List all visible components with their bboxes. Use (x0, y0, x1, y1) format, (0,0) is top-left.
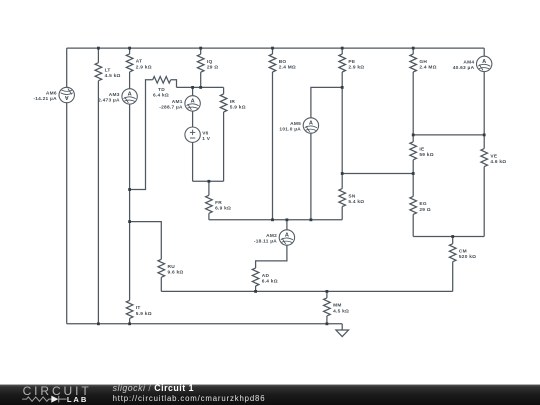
svg-text:59 kΩ: 59 kΩ (419, 152, 433, 158)
wire TD left branch (130, 80, 153, 190)
resistor LT (95, 63, 102, 81)
svg-text:520 kΩ: 520 kΩ (459, 254, 476, 260)
junction (326, 322, 329, 325)
svg-text:5.9 kΩ: 5.9 kΩ (136, 311, 152, 317)
svg-text:A: A (65, 94, 69, 100)
resistor IE (410, 142, 417, 160)
svg-text:A: A (309, 120, 313, 126)
wire AM1-V6 (192, 111, 194, 127)
svg-text:LT: LT (105, 68, 111, 74)
junction (483, 134, 486, 137)
wire AM5 bottom (310, 133, 312, 220)
svg-text:-288.7 µA: -288.7 µA (159, 104, 183, 110)
resistor RU (158, 259, 165, 277)
wire MM top (326, 291, 328, 298)
resistor VE (481, 149, 488, 167)
wire PE-SN (341, 72, 343, 189)
wire TD right (171, 80, 177, 88)
svg-text:TD: TD (158, 87, 165, 93)
svg-text:29 Ω: 29 Ω (207, 65, 219, 71)
wire SN bottom (341, 207, 343, 220)
wire CM bottom (452, 262, 454, 292)
svg-text:2.9 kΩ: 2.9 kΩ (136, 64, 152, 70)
svg-text:PE: PE (348, 59, 355, 65)
svg-text:FR: FR (215, 200, 222, 206)
junction (341, 172, 344, 175)
wire AM5 top (311, 87, 342, 117)
svg-text:A: A (482, 59, 486, 65)
junction (191, 86, 194, 89)
svg-text:BO: BO (279, 59, 287, 65)
wire PE top (341, 48, 343, 54)
junction (128, 322, 131, 325)
resistor AT (126, 54, 133, 72)
wire rail y220 (209, 219, 342, 221)
svg-text:6.4 kΩ: 6.4 kΩ (153, 92, 169, 98)
wire IT bottom (129, 318, 131, 323)
wire MM bottom (326, 316, 328, 324)
svg-text:40.63 µA: 40.63 µA (453, 65, 475, 71)
wire GH top (412, 48, 414, 54)
svg-text:AT: AT (136, 59, 143, 65)
junction (326, 290, 329, 293)
wire IQ bottom (200, 72, 202, 87)
wire AM2-AD (256, 245, 287, 268)
svg-text:RU: RU (168, 264, 176, 270)
svg-text:4.5 kΩ: 4.5 kΩ (105, 73, 121, 79)
junction (286, 218, 289, 221)
svg-text:-18.11 µA: -18.11 µA (254, 238, 277, 244)
wire FR bottom (208, 213, 210, 220)
svg-text:AM5: AM5 (290, 121, 301, 127)
junction (412, 47, 415, 50)
wire AM2 top (286, 220, 288, 230)
wire rail y173 (342, 173, 413, 175)
svg-text:AM2: AM2 (266, 233, 277, 239)
wire LT bottom (97, 81, 99, 324)
svg-text:AM6: AM6 (46, 90, 57, 96)
junction (97, 47, 100, 50)
wire IR bottom (223, 112, 225, 181)
wire bottom rail (67, 323, 343, 325)
junction (128, 47, 131, 50)
svg-text:2.473 µA: 2.473 µA (98, 97, 120, 103)
wire AM6 bottom (66, 103, 68, 324)
wire GH-IE (412, 72, 414, 142)
junction (199, 47, 202, 50)
svg-text:4.5 kΩ: 4.5 kΩ (333, 308, 349, 314)
svg-text:A: A (191, 98, 195, 104)
voltage source V6 (185, 127, 200, 142)
svg-text:IE: IE (419, 147, 425, 153)
wire BO bottom (272, 72, 274, 220)
svg-text:V6: V6 (202, 130, 208, 136)
svg-text:2.9 kΩ: 2.9 kΩ (348, 64, 364, 70)
ammeter AM1 (185, 96, 200, 111)
wire rail y236 (413, 236, 484, 238)
junction (208, 180, 211, 183)
resistor MM (324, 298, 331, 316)
resistor SN (339, 189, 346, 207)
junction (341, 86, 344, 89)
junction (128, 220, 131, 223)
resistor IT (126, 300, 133, 318)
resistor IR (220, 94, 227, 112)
svg-text:LAB: LAB (67, 395, 88, 404)
resistor PE (339, 54, 346, 72)
wire top rail (67, 47, 485, 49)
junction (451, 235, 454, 238)
svg-text:EG: EG (419, 201, 426, 207)
wire V6 bottom (192, 142, 194, 181)
wire FR top (208, 181, 210, 195)
svg-text:sligocki / Circuit 1: sligocki / Circuit 1 (113, 384, 194, 393)
svg-text:2.4 MΩ: 2.4 MΩ (419, 64, 436, 70)
svg-text:4.6 kΩ: 4.6 kΩ (490, 159, 506, 165)
svg-text:9.6 kΩ: 9.6 kΩ (168, 270, 184, 276)
ammeter AM4 (477, 56, 492, 71)
wire LT top (97, 48, 99, 63)
wire AM3-IT (129, 104, 131, 300)
resistor EG (410, 196, 417, 214)
junction (341, 47, 344, 50)
junction (412, 134, 415, 137)
wire AM4 top (483, 48, 485, 56)
wire AM1 top (192, 87, 194, 95)
junction (199, 86, 202, 89)
svg-text:AD: AD (262, 273, 270, 279)
ammeter AM6 (flipped voltmeter-style) (59, 87, 74, 102)
wire node rail y87 (177, 86, 224, 88)
svg-text:-14.21 µA: -14.21 µA (33, 96, 57, 102)
ammeter AM5 (303, 118, 318, 133)
svg-text:http://circuitlab.com/cmarurzk: http://circuitlab.com/cmarurzkhpd86 (113, 394, 266, 403)
svg-text:5.4 kΩ: 5.4 kΩ (348, 199, 364, 205)
svg-text:5.9 kΩ: 5.9 kΩ (230, 104, 246, 110)
junction (310, 218, 313, 221)
svg-text:6.4 kΩ: 6.4 kΩ (262, 278, 278, 284)
svg-text:CM: CM (459, 249, 467, 255)
svg-text:AM3: AM3 (109, 92, 120, 98)
svg-text:1 V: 1 V (202, 136, 211, 142)
svg-text:6.9 kΩ: 6.9 kΩ (215, 206, 231, 212)
resistor IQ (197, 54, 204, 72)
junction (271, 218, 274, 221)
wire VE bottom (483, 167, 485, 237)
wire CM top (452, 237, 454, 244)
svg-text:A: A (285, 232, 289, 238)
wire IR top (223, 87, 225, 94)
junction (97, 322, 100, 325)
junction (254, 290, 257, 293)
wire RU top (130, 222, 162, 260)
resistor TD (153, 77, 171, 84)
svg-text:101.0 µA: 101.0 µA (279, 127, 301, 133)
wire IQ top (200, 48, 202, 54)
wire rail y291 (161, 290, 452, 292)
svg-text:29 Ω: 29 Ω (419, 207, 431, 213)
resistor BO (269, 54, 276, 72)
svg-text:IQ: IQ (207, 59, 213, 65)
ammeter AM2 (279, 230, 294, 245)
svg-text:SN: SN (348, 193, 355, 199)
wire AT top (129, 48, 131, 54)
resistor CM (449, 244, 456, 262)
svg-text:A: A (128, 91, 132, 97)
wire AD bottom (255, 286, 257, 291)
svg-text:IT: IT (136, 305, 141, 311)
wire rail y181 (193, 180, 224, 182)
svg-text:MM: MM (333, 303, 342, 309)
junction (412, 172, 415, 175)
wire EG bottom (412, 214, 414, 236)
junction (271, 47, 274, 50)
svg-text:AM1: AM1 (172, 99, 183, 105)
wire AM4-VE (483, 72, 485, 149)
wire AM6 top (66, 48, 68, 87)
ammeter AM3 (122, 89, 137, 104)
resistor FR (206, 195, 213, 213)
svg-text:2.4 MΩ: 2.4 MΩ (279, 64, 296, 70)
svg-text:AM4: AM4 (463, 59, 474, 65)
ground (336, 324, 349, 337)
wire rail y135 (413, 134, 484, 136)
wire AT-AM3 (129, 72, 131, 89)
wire IE-EG (412, 160, 414, 197)
svg-text:IR: IR (230, 99, 236, 105)
svg-text:GH: GH (419, 59, 427, 65)
resistor GH (410, 54, 417, 72)
wire BO top (272, 48, 274, 54)
resistor AD (252, 268, 259, 286)
wire RU bottom (160, 277, 162, 291)
junction (128, 188, 131, 191)
svg-text:VE: VE (490, 153, 497, 159)
